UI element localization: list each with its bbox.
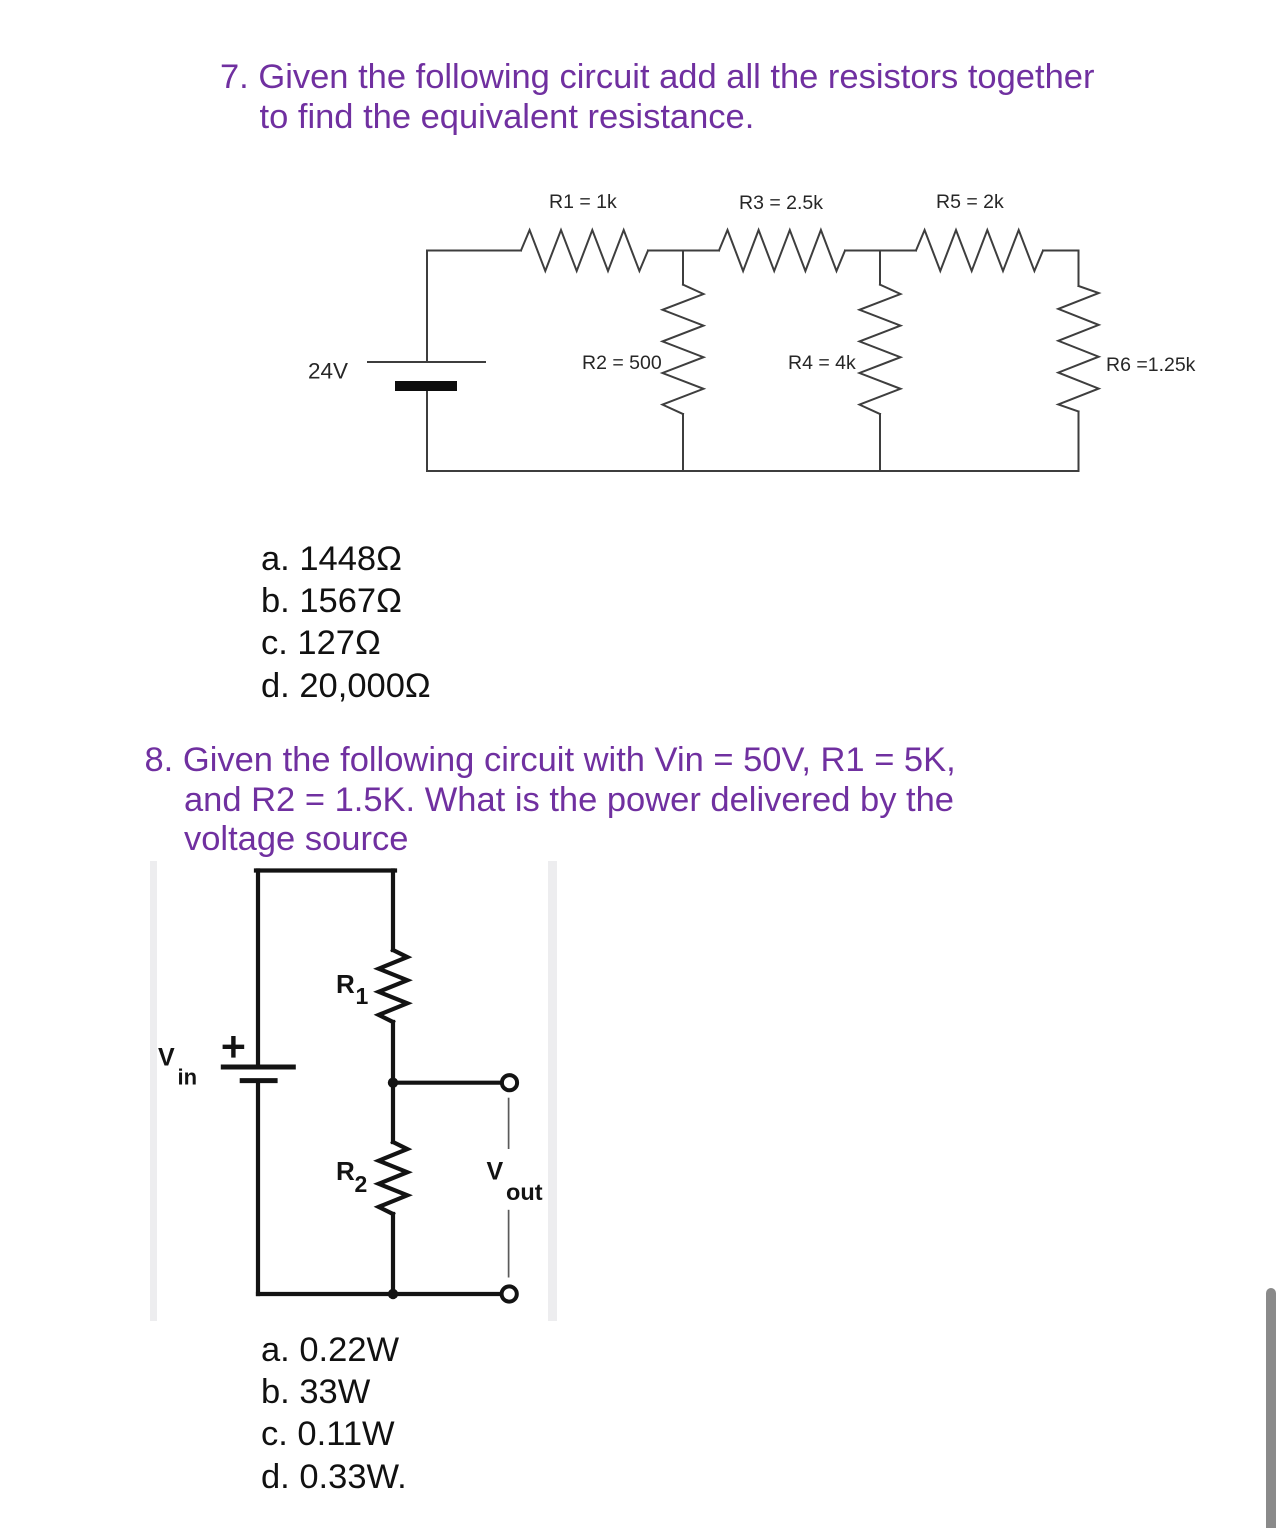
svg-text:V: V	[487, 1158, 504, 1186]
battery Vin negative plate	[240, 1078, 278, 1083]
wire R3 to R5	[845, 250, 916, 252]
battery V1 positive plate	[367, 361, 486, 363]
left gray strip of embedded circuit-8 image	[150, 861, 157, 1321]
node: junction dot at Vout tap	[388, 1078, 398, 1088]
svg-text:R4 = 4k: R4 = 4k	[788, 352, 856, 374]
svg-text:1: 1	[356, 983, 369, 1009]
node A stub (top of R2)	[682, 251, 684, 285]
wire left vertical above battery (Q8)	[256, 871, 260, 1065]
resistor R4	[860, 285, 901, 414]
wire left vertical above battery	[426, 251, 428, 363]
wire middle vertical below R2 (Q8)	[391, 1214, 395, 1294]
node: junction dot at bottom wire	[388, 1289, 398, 1299]
node B stub (top of R4)	[879, 251, 881, 285]
svg-text:R: R	[336, 969, 355, 999]
svg-text:R3 = 2.5k: R3 = 2.5k	[739, 192, 823, 214]
wire R6 bottom lead	[1078, 412, 1080, 472]
browser scrollbar thumb	[1266, 1288, 1276, 1528]
wire output tap to Vout terminal (Q8)	[393, 1081, 500, 1085]
resistor R2 (Q8)	[379, 1142, 408, 1214]
svg-text:R2 = 500: R2 = 500	[582, 352, 662, 374]
wire left vertical below battery (Q8)	[256, 1081, 260, 1294]
wire left vertical below battery	[426, 391, 428, 471]
svg-text:R6 =1.25k: R6 =1.25k	[1106, 354, 1196, 376]
svg-text:R1 = 1k: R1 = 1k	[549, 191, 617, 213]
resistor R6	[1058, 286, 1098, 412]
wire R1 to R3	[648, 250, 719, 252]
svg-text:V: V	[158, 1043, 175, 1071]
question 8 heading	[145, 741, 956, 860]
resistor R5	[916, 230, 1043, 271]
resistor R1	[521, 230, 648, 271]
wire bottom horizontal (Q8)	[258, 1292, 501, 1296]
wire middle vertical between R1 and R2 (Q8)	[391, 1022, 395, 1142]
terminal Vout+ open circle	[502, 1075, 517, 1090]
wire thin terminal link lower	[508, 1210, 510, 1278]
svg-text:R5 = 2k: R5 = 2k	[936, 191, 1004, 213]
question 7 heading	[220, 58, 1094, 137]
resistor R2	[663, 285, 704, 414]
question 8 answers	[261, 1329, 407, 1499]
question 7 answers	[261, 538, 431, 708]
right gray strip of embedded circuit-8 image	[548, 861, 557, 1321]
resistor R3	[719, 230, 845, 271]
svg-text:24V: 24V	[308, 359, 348, 384]
wire top horizontal (Q8)	[256, 868, 395, 872]
wire top-left horizontal (Q7)	[427, 250, 521, 252]
battery V1 negative plate	[395, 381, 457, 391]
wire R5 to right corner	[1043, 250, 1079, 252]
resistor R1 (Q8)	[379, 950, 408, 1022]
svg-text:2: 2	[355, 1171, 368, 1197]
wire R4 bottom lead	[879, 414, 881, 471]
svg-text:R: R	[336, 1156, 355, 1186]
terminal Vout- open circle	[502, 1286, 517, 1301]
svg-text:out: out	[506, 1179, 543, 1205]
wire right vertical top lead of R6	[1078, 251, 1080, 287]
battery Vin positive plate	[221, 1065, 296, 1070]
wire bottom horizontal (Q7)	[427, 470, 1079, 472]
plus sign polarity mark	[223, 1036, 245, 1058]
wire middle vertical top lead of R1 (Q8)	[391, 871, 395, 951]
svg-text:in: in	[178, 1064, 198, 1089]
wire R2 bottom lead	[682, 414, 684, 471]
wire thin terminal link upper	[508, 1098, 510, 1149]
